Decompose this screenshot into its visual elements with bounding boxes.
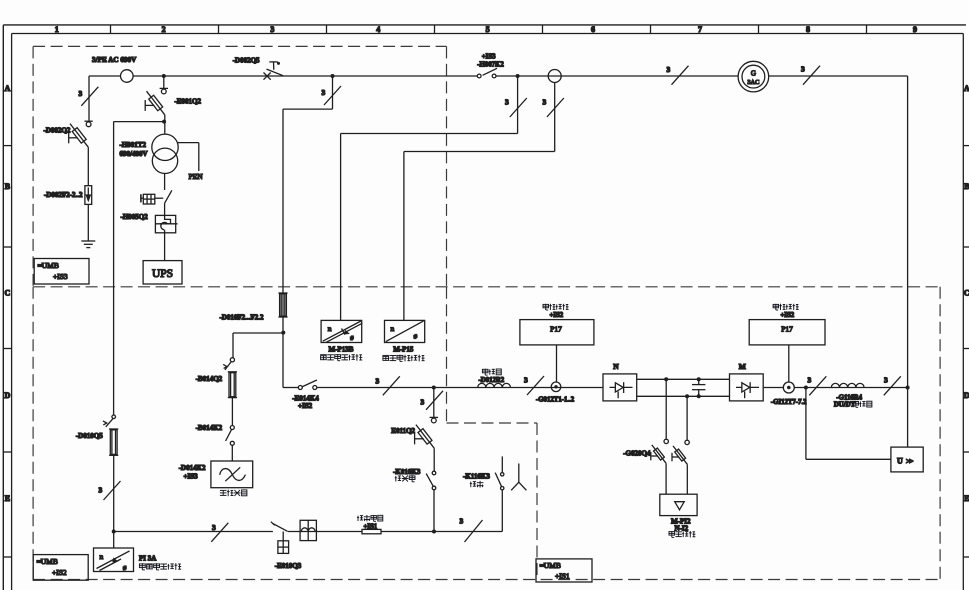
svg-text:3: 3: [801, 65, 805, 74]
wire jog down-left: [332, 76, 334, 109]
switch E010Q3 blade: [271, 522, 288, 532]
DC link capacitor: [692, 379, 705, 396]
svg-text:-G012T1-1..2: -G012T1-1..2: [536, 397, 575, 404]
inrush element box on bus: [300, 520, 316, 540]
junction node top bus to stator bus: [331, 74, 335, 78]
junction node on top bus with earth tap: [162, 74, 166, 78]
svg-text:M-P13B: M-P13B: [329, 346, 354, 354]
svg-text:n: n: [328, 324, 332, 333]
wire DC+ tap down: [665, 379, 667, 439]
junction node precharge tap: [432, 386, 436, 390]
E010Q3 auxiliary symbol: [278, 532, 289, 554]
junction node bottom bus left: [112, 530, 116, 534]
generator G 3AC: [738, 61, 769, 92]
junction node U detection tap: [804, 386, 808, 390]
wire to main filter: [231, 445, 233, 461]
svg-text:+IS2: +IS2: [781, 312, 795, 319]
border row letters right: [964, 84, 969, 503]
switch D002Q5: [264, 62, 284, 80]
current detection box P17 left: [520, 320, 594, 345]
svg-text:E011Q2: E011Q2: [391, 427, 415, 435]
transformer H001T2 690/400V: [152, 134, 178, 160]
wire E001Q2 to transformer: [164, 115, 166, 134]
svg-text:-D010F2...F2.2: -D010F2...F2.2: [220, 314, 264, 322]
label box =UMB +IS3: [34, 259, 89, 285]
phase slash 3: [376, 376, 400, 395]
wire to left feeder: [114, 121, 165, 123]
fuse-switch D002Q2: [69, 124, 89, 148]
border row letters left: [5, 84, 11, 503]
wire to bottom bus: [113, 455, 115, 531]
svg-text:690/400V: 690/400V: [120, 150, 148, 158]
ground symbol: [81, 241, 95, 248]
wire transformer to H005Q2: [164, 173, 166, 190]
svg-text:3: 3: [376, 377, 380, 386]
phase slash 3 on P13B wire: [505, 98, 527, 118]
svg-text:3: 3: [99, 486, 103, 495]
svg-text:6: 6: [591, 25, 595, 34]
svg-text:PI 3A: PI 3A: [139, 555, 156, 563]
fuse-switch G020Q4 left: [651, 445, 666, 463]
wire to B014K2: [231, 398, 233, 426]
contact H007K2 +IS3: [477, 68, 497, 78]
svg-text:7: 7: [698, 25, 702, 34]
svg-text:3: 3: [524, 376, 528, 385]
svg-text:3: 3: [884, 376, 888, 385]
DU/DT reactor G116R4: [831, 383, 864, 387]
svg-text:9: 9: [913, 25, 917, 34]
svg-text:=UMB: =UMB: [38, 261, 59, 270]
svg-text:UPS: UPS: [152, 268, 173, 280]
wire fuse to ground: [87, 204, 89, 241]
svg-text:-D010Q5: -D010Q5: [76, 432, 103, 440]
switch H005Q2 with motor actuator: [141, 190, 172, 204]
phase slash 3 on P15 wire: [543, 98, 564, 118]
wire bottom bus segment 2: [288, 531, 502, 533]
wires to M-PI2 box: [665, 463, 667, 494]
wire bottom bus segment 1: [114, 531, 273, 533]
svg-text:-B014K2: -B014K2: [196, 424, 223, 432]
wire D002Q2 to fuse: [87, 147, 89, 186]
svg-text:B: B: [964, 182, 969, 191]
contact E014K4 +IS2: [298, 380, 317, 390]
svg-text:P17: P17: [550, 325, 562, 334]
svg-text:-H001T2: -H001T2: [120, 141, 147, 149]
svg-text:D: D: [964, 391, 969, 400]
svg-text:3: 3: [667, 65, 671, 74]
label box =UMB +IS1: [536, 559, 592, 582]
svg-text:-H005Q2: -H005Q2: [121, 213, 149, 221]
svg-text:=UMB: =UMB: [37, 557, 58, 566]
svg-text:1: 1: [55, 25, 59, 34]
svg-text:PEN: PEN: [189, 172, 204, 181]
svg-text:DU/DT: DU/DT: [834, 402, 856, 409]
contact circles G020Q4: [664, 439, 668, 443]
overvoltage box U>>: [891, 447, 923, 472]
fuse-switch E011Q2: [415, 425, 435, 449]
wire to M-P15 transducer: [554, 83, 556, 152]
svg-text:3: 3: [460, 517, 464, 526]
border column numbers 1-9: [55, 25, 917, 34]
svg-text:8: 8: [806, 25, 810, 34]
fuse-switch E001Q2: [145, 91, 165, 115]
wire DC- tap down: [686, 396, 688, 440]
svg-text:n: n: [391, 324, 395, 333]
svg-text:P17: P17: [781, 325, 793, 334]
enclosure bottom dashed box (+IS2 / +IS1): [33, 287, 940, 580]
CT GI12T7: [783, 382, 794, 393]
UPS box: [143, 261, 182, 284]
wire generator loop right side: [907, 76, 909, 447]
transducer M-P15 stator current: [385, 320, 425, 342]
contact D010Q5: [103, 415, 116, 427]
label box =UMB +IS2: [33, 555, 88, 581]
phase slash 3 right of junction: [460, 517, 483, 543]
wire to M-P13B transducer: [517, 76, 519, 134]
svg-text:-D002Q5: -D002Q5: [233, 57, 260, 65]
svg-text:+IS3: +IS3: [482, 53, 496, 60]
wire filter branch: [233, 332, 283, 334]
DC link rails: [637, 378, 730, 380]
fuse below B014Q2: [228, 372, 237, 398]
svg-text:D: D: [5, 391, 11, 400]
svg-text:-D002Q2: -D002Q2: [44, 127, 71, 135]
svg-text:C: C: [5, 288, 11, 297]
phase slash 3 on bottom bus: [211, 523, 228, 542]
junction node filter branch: [281, 331, 285, 335]
svg-text:C: C: [964, 288, 969, 297]
border row ticks right: [963, 146, 969, 557]
svg-text:3: 3: [79, 89, 83, 98]
svg-text:+IS3: +IS3: [184, 473, 199, 481]
svg-text:A: A: [964, 84, 969, 93]
phase slash 3 before G012T1: [524, 376, 544, 396]
contact B014Q2: [223, 358, 234, 370]
svg-text:-GI12T7-7.2: -GI12T7-7.2: [771, 399, 807, 406]
svg-text:M: M: [739, 362, 746, 371]
border column ticks: [111, 25, 867, 34]
svg-text:5: 5: [486, 25, 490, 34]
svg-text:3/PE AC 690V: 3/PE AC 690V: [92, 56, 137, 64]
fuse-switch G020Q4 right: [672, 446, 687, 464]
CT G012T1: [551, 382, 561, 392]
svg-text:E: E: [964, 494, 969, 503]
phase slash 3: [322, 86, 342, 105]
contact B014K2: [226, 426, 235, 446]
svg-text:M-P15: M-P15: [393, 346, 414, 354]
wire E014K4 to N rectifier: [317, 387, 603, 389]
fuse D002F2 with striker: [85, 186, 92, 205]
svg-text:3: 3: [505, 98, 509, 107]
heating resistor +IS1: [362, 529, 381, 533]
phase slash 3 top-left: [79, 87, 99, 106]
svg-text:+IS3: +IS3: [53, 272, 68, 281]
breaker element below H005Q2: [155, 203, 177, 260]
svg-text:4: 4: [376, 25, 380, 34]
svg-text:-G116R4: -G116R4: [836, 394, 862, 401]
phase slash 3 after generator: [801, 65, 820, 85]
svg-text:2: 2: [162, 25, 166, 34]
DC voltage detection box M-PI2: [660, 494, 697, 515]
svg-text:3AC: 3AC: [747, 79, 759, 86]
wire stator bus vertical: [282, 109, 284, 387]
wire to K016K3: [433, 448, 435, 471]
border row ticks left: [3, 146, 11, 557]
fuse D010F2: [278, 293, 287, 317]
svg-text:3: 3: [543, 98, 547, 107]
current detection box P17 right: [749, 320, 825, 345]
wire left feeder vertical: [113, 122, 115, 416]
junction node transformer branch: [162, 120, 166, 124]
earth tap below junction with slash: [433, 388, 435, 418]
svg-text:3: 3: [421, 398, 425, 407]
svg-text:-E001Q2: -E001Q2: [175, 98, 202, 106]
wire M output: [763, 387, 907, 389]
svg-text:+IS2: +IS2: [298, 402, 313, 410]
svg-text:-D014K2: -D014K2: [179, 464, 206, 472]
main filter box D014K2: [211, 461, 253, 488]
phase slash 3 after GI12T7: [808, 376, 827, 396]
svg-text:=UMB: =UMB: [540, 561, 561, 570]
svg-text:+IS2: +IS2: [52, 568, 67, 577]
svg-text:G: G: [751, 69, 756, 77]
wire top bus right segment: [496, 75, 908, 77]
junction node precharge branch on bus: [432, 530, 436, 534]
svg-text:3: 3: [270, 25, 274, 34]
wire top bus left segment: [89, 75, 477, 77]
wire bus corner up to K116K3: [501, 490, 503, 532]
svg-text:-D012R2: -D012R2: [479, 377, 505, 384]
phase slash 3 before generator: [667, 65, 689, 85]
grid voltage transducer PI3A: [113, 532, 115, 549]
svg-text:B: B: [5, 182, 11, 191]
wire stator bus to E014K4: [283, 387, 298, 389]
svg-text:N: N: [613, 362, 619, 371]
node measuring circle on top bus: [121, 70, 134, 83]
reactor D012R2: [478, 383, 511, 387]
contact K116K3 heater: [495, 473, 504, 490]
svg-text:-B014Q2: -B014Q2: [196, 375, 223, 383]
wire K016K3 to bottom bus: [433, 490, 435, 532]
svg-text:-E010Q3: -E010Q3: [275, 562, 302, 570]
wire left drop to D002Q2 branch: [88, 76, 90, 121]
svg-text:+IS1: +IS1: [555, 572, 570, 581]
svg-text:-H007K2: -H007K2: [477, 61, 504, 68]
svg-text:3: 3: [808, 376, 812, 385]
svg-text:>>: >>: [906, 456, 913, 465]
svg-text:-D002F2-2..2: -D002F2-2..2: [44, 191, 83, 199]
enclosure +IS3 dashed box: [33, 46, 446, 286]
svg-text:A: A: [5, 84, 11, 93]
wire PEN tap: [178, 142, 199, 144]
wire to U detection: [805, 388, 807, 460]
rectifier N: [603, 374, 637, 401]
svg-text:n: n: [100, 552, 104, 561]
svg-text:3: 3: [322, 88, 326, 97]
svg-text:-G020Q4: -G020Q4: [623, 450, 651, 458]
inverter M: [730, 374, 764, 401]
svg-text:-K116K3: -K116K3: [463, 472, 490, 480]
svg-text:+IS1: +IS1: [364, 523, 378, 530]
contact K016K3 precharge: [426, 471, 436, 490]
svg-text:E: E: [5, 494, 10, 503]
junction node H007K2: [516, 74, 520, 78]
junction nodes DC voltage taps: [664, 377, 668, 381]
phase slash 3: [99, 481, 121, 500]
heater element symbol: [511, 464, 526, 491]
earth link cup below left drop: [84, 121, 92, 127]
fuse below D010Q5: [109, 429, 118, 455]
svg-text:+IS2: +IS2: [550, 312, 564, 319]
junction node generator loop: [906, 386, 910, 390]
transducer M-P13B stator voltage: [321, 320, 362, 342]
phase slash 3 before generator loop: [884, 376, 901, 396]
svg-text:3: 3: [212, 523, 216, 532]
dashed partition between +IS2 and +IS1: [447, 287, 538, 580]
CT circle on top bus: [548, 70, 561, 83]
svg-text:U: U: [897, 457, 903, 466]
svg-text:-K016K3: -K016K3: [393, 468, 421, 476]
